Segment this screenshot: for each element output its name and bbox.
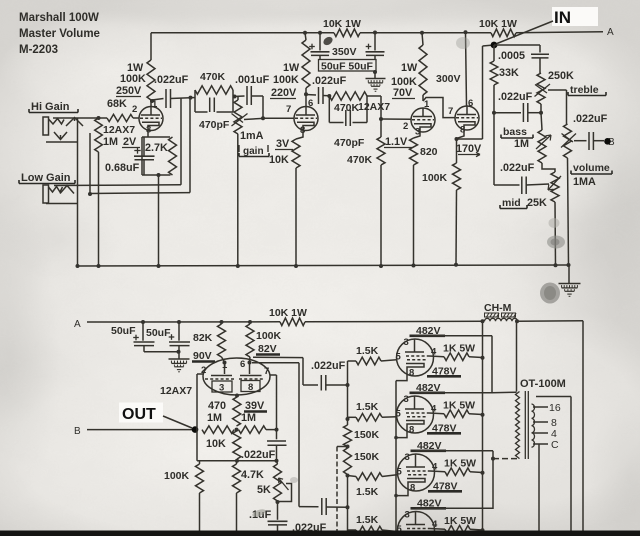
capacitor .022uF coupling 1 (152, 99, 164, 101)
svg-text:50uF: 50uF (111, 325, 136, 337)
svg-text:Master Volume: Master Volume (19, 28, 100, 40)
svg-text:Hi Gain: Hi Gain (31, 101, 70, 113)
svg-text:8: 8 (248, 382, 253, 393)
svg-text:.001uF: .001uF (235, 74, 270, 86)
wire V5 plate (416, 450, 494, 452)
wire V4 plate (415, 392, 493, 394)
resistor R plate V1a 100K 1W (150, 33, 152, 60)
svg-text:250V: 250V (116, 85, 142, 97)
svg-text:150K: 150K (354, 429, 380, 441)
svg-text:B: B (74, 426, 81, 437)
stain blobs (540, 283, 560, 304)
svg-text:100K: 100K (422, 172, 448, 184)
svg-text:82K: 82K (193, 332, 213, 344)
svg-text:250K: 250K (548, 70, 574, 82)
capacitor 50uF (PI supply 2) (178, 322, 180, 341)
svg-text:1.5K: 1.5K (356, 486, 379, 498)
wire PI grid2 feed (270, 374, 277, 376)
svg-text:A: A (607, 27, 614, 38)
capacitor .022uF mid (493, 113, 495, 185)
wire plates V3 V4 to OT (491, 336, 493, 393)
wire presence node line (197, 460, 277, 462)
svg-text:5K: 5K (257, 484, 271, 496)
svg-text:1W: 1W (401, 62, 418, 74)
svg-text:4.7K: 4.7K (241, 469, 264, 481)
svg-text:12AX7: 12AX7 (160, 385, 192, 397)
svg-text:12AX7: 12AX7 (103, 124, 135, 136)
capacitor 0.68uF (147, 131, 149, 138)
svg-text:.022uF: .022uF (500, 162, 535, 174)
svg-text:100K: 100K (256, 330, 282, 342)
svg-text:C: C (551, 439, 559, 451)
wire input line (53, 117, 107, 119)
node B input (87, 429, 195, 431)
tube V1a 12AX7 (139, 107, 163, 131)
wire C tap down (538, 444, 540, 531)
wire speaker box (536, 396, 571, 398)
capacitor .022uF PI out lower (321, 498, 323, 515)
svg-text:1mA: 1mA (240, 130, 264, 142)
svg-text:7: 7 (286, 104, 291, 115)
resistor 1M input (95, 118, 103, 152)
resistor R plate V1b 100K 1W (305, 33, 306, 40)
potentiometer volume 1MA (566, 90, 568, 124)
svg-text:5: 5 (396, 352, 402, 363)
wire grid bus lower (347, 476, 349, 508)
svg-text:100K: 100K (273, 74, 299, 86)
resistor 2.7K cathode (169, 137, 177, 175)
wire low gain to 2nd grid (180, 98, 182, 185)
svg-text:IN: IN (554, 8, 571, 27)
wire plates V5 V6 to OT (492, 451, 494, 509)
svg-text:50uF: 50uF (146, 327, 171, 339)
OT secondary taps (533, 406, 548, 408)
svg-text:10K: 10K (269, 154, 289, 166)
svg-text:2V: 2V (123, 136, 137, 148)
svg-text:50uF 50uF: 50uF 50uF (321, 61, 374, 73)
svg-text:1: 1 (152, 99, 158, 110)
svg-text:10K 1W: 10K 1W (269, 307, 307, 319)
potentiometer bass 1M (541, 113, 542, 130)
resistor 82K PI plate (218, 324, 226, 357)
wire cathode to ground rail (158, 175, 160, 266)
wire choke to B+ main (517, 320, 583, 323)
wire direct coupling V2a plate to V2b grid (423, 98, 455, 118)
svg-text:33K: 33K (499, 67, 519, 79)
wire V6 plate (416, 507, 494, 509)
capacitor .022uF PI out upper (320, 375, 322, 391)
resistor 10K 1W (right dropper) (491, 29, 516, 37)
ground (PI supply) (169, 358, 190, 360)
svg-text:1W: 1W (283, 62, 300, 74)
capacitor .0005 treble (493, 45, 495, 48)
resistor 470 PI cathode (233, 397, 241, 426)
svg-text:3: 3 (405, 510, 410, 521)
wire treble wiper (548, 89, 567, 91)
svg-text:8: 8 (410, 483, 415, 494)
svg-text:3: 3 (404, 337, 409, 348)
svg-text:100K: 100K (120, 73, 146, 85)
bottom scan edge (0, 531, 640, 536)
resistor 4.7K (236, 461, 238, 464)
wire V4 cathode (396, 433, 407, 438)
svg-text:Low Gain: Low Gain (21, 172, 71, 184)
capacitor .022uF presence (276, 430, 278, 440)
svg-text:1: 1 (424, 99, 430, 110)
svg-text:70V: 70V (393, 87, 413, 99)
capacitor .1uF (277, 502, 279, 520)
svg-text:2.7K: 2.7K (145, 142, 168, 154)
svg-text:1.5K: 1.5K (356, 514, 379, 526)
resistor 150K bias feed 1 (347, 419, 349, 425)
capacitor .022uF coupling 2 (306, 94, 316, 97)
tube V1b 12AX7 (263, 117, 294, 119)
node: rail junctions (303, 31, 307, 35)
capacitor 50uF (PI supply 1) (142, 322, 144, 341)
svg-text:OUT: OUT (122, 406, 156, 423)
svg-text:820: 820 (420, 146, 438, 158)
svg-text:treble: treble (570, 84, 599, 96)
wire V3 plate (415, 335, 493, 337)
svg-text:5: 5 (397, 467, 403, 478)
svg-text:1MA: 1MA (573, 176, 596, 188)
jack J1 Hi Gain (43, 117, 49, 135)
svg-text:.022uF: .022uF (312, 75, 347, 87)
svg-text:150K: 150K (354, 451, 380, 463)
capacitor 50uF filter 1 (319, 33, 321, 51)
potentiometer mid 25K (542, 163, 555, 172)
svg-text:3: 3 (219, 383, 224, 394)
svg-text:470K: 470K (347, 154, 373, 166)
resistor 100K PI lower (199, 461, 201, 464)
ground (filter caps) (374, 71, 376, 79)
svg-text:.022uF: .022uF (573, 113, 608, 125)
wire preamp ground rail (78, 265, 570, 266)
resistor 470K + capacitor 470pF network 1 (195, 86, 233, 94)
svg-text:470: 470 (208, 400, 226, 412)
wire bias feed down (337, 446, 348, 448)
svg-text:6: 6 (308, 98, 313, 109)
svg-text:Marshall 100W: Marshall 100W (19, 12, 99, 24)
resistor 10K 1W (left dropper) (334, 29, 360, 37)
svg-text:470pF: 470pF (334, 137, 365, 149)
svg-text:470pF: 470pF (199, 119, 230, 131)
svg-text:.022uF: .022uF (498, 91, 533, 103)
resistor 1.5K grid V4 (356, 414, 382, 422)
svg-text:7: 7 (264, 366, 269, 377)
resistor 1M PI left (202, 426, 234, 434)
svg-text:1.1V: 1.1V (385, 136, 408, 148)
svg-text:7: 7 (448, 106, 453, 117)
svg-text:CH-M: CH-M (484, 302, 512, 314)
node IN (552, 7, 598, 26)
capacitor 50uF filter 2 (374, 33, 376, 51)
svg-text:6: 6 (468, 98, 473, 109)
svg-text:mid: mid (502, 197, 521, 209)
wire V5 cathode (396, 491, 408, 496)
resistor 10K cathode V1b (296, 131, 303, 140)
wire screen supply bus (482, 321, 484, 530)
resistor 10K tail (233, 431, 242, 459)
svg-text:1.5K: 1.5K (356, 345, 379, 357)
wire PI plate 2 output (252, 362, 299, 364)
resistor 470K grid leak (367, 95, 381, 97)
svg-text:gain: gain (243, 146, 264, 157)
wire V3 cathode (396, 376, 407, 381)
wire PI grid stub (197, 373, 203, 375)
resistor 820 cathode (414, 132, 421, 138)
capacitor .001uF (233, 95, 245, 98)
wire PI plate 1 output (253, 356, 303, 358)
svg-text:10K: 10K (206, 438, 226, 450)
svg-text:8: 8 (409, 425, 414, 436)
wire choke to OT primary (516, 321, 518, 391)
svg-text:10K 1W: 10K 1W (479, 18, 517, 30)
capacitor .022uF bass (494, 112, 521, 114)
resistor 68K grid (107, 114, 133, 121)
svg-text:.022uF: .022uF (241, 449, 276, 461)
resistor 100K cathode follower (457, 130, 465, 139)
svg-text:.022uF: .022uF (154, 74, 189, 86)
svg-text:1M: 1M (207, 412, 222, 424)
potentiometer gain 1M (237, 96, 239, 100)
svg-text:3: 3 (404, 394, 409, 405)
tube V2a 12AX7 (381, 118, 411, 120)
wire 170V node up to tone stack (457, 138, 483, 140)
svg-text:2: 2 (132, 104, 137, 115)
svg-text:OT-100M: OT-100M (520, 378, 566, 390)
svg-text:1.5K: 1.5K (356, 401, 379, 413)
svg-text:1: 1 (222, 360, 228, 371)
svg-text:12AX7: 12AX7 (358, 101, 390, 113)
svg-text:25K: 25K (527, 197, 547, 209)
svg-text:10K 1W: 10K 1W (323, 18, 361, 30)
tube V2b 12AX7 cathode follower (466, 33, 467, 106)
svg-text:0.68uF: 0.68uF (105, 162, 140, 174)
svg-text:volume: volume (573, 162, 610, 174)
label 50uF 50uF box (319, 60, 377, 72)
svg-text:1M: 1M (103, 136, 118, 148)
svg-text:3V: 3V (276, 138, 290, 150)
potentiometer 5K presence (277, 461, 278, 464)
wire: top B+ rail A (151, 32, 334, 34)
svg-text:3: 3 (405, 452, 410, 463)
resistor 470K + capacitor 470pF network 2 (329, 92, 367, 100)
resistor 150K bias feed 2 (344, 448, 352, 475)
svg-text:350V: 350V (332, 46, 357, 58)
svg-text:470K: 470K (200, 71, 226, 83)
svg-text:.0005: .0005 (498, 50, 525, 62)
resistor 1.5K grid V6 (348, 529, 357, 531)
svg-text:100K: 100K (164, 470, 190, 482)
resistor 1.5K grid V5 (356, 473, 382, 481)
svg-text:.022uF: .022uF (311, 360, 346, 372)
svg-text:470K: 470K (334, 102, 360, 114)
svg-text:68K: 68K (107, 98, 127, 110)
resistor 33K slope (493, 45, 495, 61)
svg-text:bass: bass (503, 126, 527, 138)
ground (preamp rail) (568, 265, 570, 284)
resistor 10K 1W lower (280, 318, 305, 326)
svg-text:8: 8 (409, 368, 414, 379)
tube PI 12AX7 (203, 358, 270, 395)
svg-text:220V: 220V (271, 87, 297, 99)
svg-text:6: 6 (240, 359, 245, 370)
svg-text:M-2203: M-2203 (19, 44, 58, 56)
svg-text:300V: 300V (436, 73, 461, 85)
resistor 1M PI right (239, 426, 267, 434)
jack J2 Low Gain (43, 185, 49, 203)
wire cathode bus (395, 381, 397, 531)
svg-text:2: 2 (403, 121, 408, 132)
label OUT (119, 403, 163, 423)
svg-text:1M: 1M (514, 138, 529, 150)
resistor 100K PI plate (246, 324, 254, 357)
svg-text:1M: 1M (241, 412, 256, 424)
svg-text:16: 16 (549, 402, 561, 414)
potentiometer treble 250K (537, 73, 545, 104)
svg-text:A: A (74, 319, 81, 330)
wire grid bus upper (347, 361, 349, 385)
resistor R plate V2a 100K 1W (422, 33, 423, 45)
capacitor .022uF volume out (574, 140, 587, 142)
resistor 1.5K grid V3 (356, 357, 381, 365)
